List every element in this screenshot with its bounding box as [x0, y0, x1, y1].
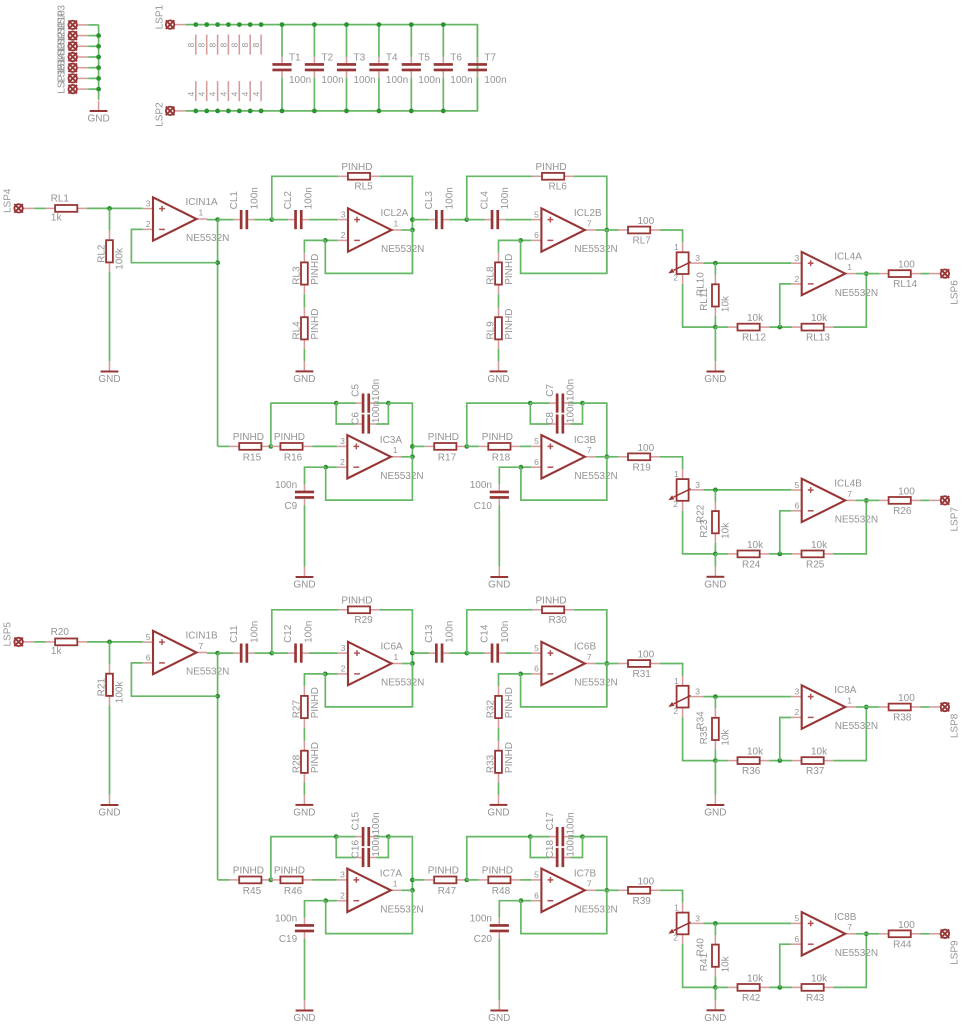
pad LSP10 — [57, 10, 89, 40]
wire — [521, 673, 531, 675]
junction — [344, 109, 349, 114]
svg-text:RL7: RL7 — [633, 236, 652, 247]
resistor R45 PINHD — [230, 866, 271, 897]
wire — [833, 500, 866, 554]
wire — [769, 553, 792, 555]
resistor R23 10k — [699, 502, 732, 543]
svg-text:8: 8 — [251, 43, 261, 48]
wire — [570, 403, 582, 424]
wire — [574, 610, 607, 707]
svg-text:4: 4 — [197, 92, 207, 97]
capacitor C20 100n — [470, 914, 509, 946]
wire — [660, 664, 683, 677]
svg-text:1: 1 — [199, 207, 204, 217]
wire — [583, 403, 607, 457]
pad LSP4 input — [2, 188, 34, 213]
wire — [683, 511, 716, 554]
svg-text:RL14: RL14 — [893, 279, 917, 290]
connector pin 4 (col 4) — [218, 81, 228, 101]
node B — [464, 878, 469, 883]
svg-text:3: 3 — [341, 643, 346, 653]
wire — [476, 25, 478, 57]
junction — [409, 109, 414, 114]
svg-text:C17: C17 — [545, 812, 556, 831]
resistor RL12 10k — [728, 313, 770, 344]
wire — [336, 402, 355, 404]
junction — [323, 898, 328, 903]
wire — [583, 837, 607, 891]
svg-text:2: 2 — [673, 933, 678, 943]
svg-text:1: 1 — [674, 469, 679, 479]
wire — [856, 933, 867, 935]
svg-text:CL4: CL4 — [480, 191, 491, 210]
junction — [386, 834, 391, 839]
svg-text:1: 1 — [674, 676, 679, 686]
wire — [336, 836, 355, 838]
svg-text:LSP1: LSP1 — [155, 4, 166, 29]
wire — [325, 664, 412, 707]
pad LSP1 — [155, 4, 186, 29]
wire — [380, 176, 413, 273]
svg-text:R37: R37 — [806, 766, 825, 777]
wire — [281, 25, 283, 57]
svg-text:GND: GND — [293, 374, 315, 385]
svg-text:R38: R38 — [893, 713, 912, 724]
svg-text:IC3A: IC3A — [380, 435, 403, 446]
connector pin 8 (col 2) — [197, 35, 207, 55]
svg-text:ICL4A: ICL4A — [834, 252, 862, 263]
ground — [704, 566, 726, 590]
op-amp ICIN1B NE5532N — [143, 631, 230, 678]
connector pin 8 (col 5) — [229, 35, 239, 55]
wire — [254, 652, 271, 654]
junction — [518, 672, 523, 677]
junction — [193, 22, 198, 27]
junction — [713, 325, 718, 330]
svg-text:10k: 10k — [747, 973, 764, 984]
resistor RL3 PINHD — [291, 253, 321, 294]
junction — [237, 22, 242, 27]
wire — [88, 56, 98, 58]
wire — [683, 717, 716, 760]
svg-text:IC8A: IC8A — [834, 685, 857, 696]
resistor R44 100 — [879, 920, 921, 951]
svg-text:4: 4 — [186, 92, 196, 97]
junction — [312, 109, 317, 114]
svg-text:3: 3 — [695, 687, 700, 697]
junction — [441, 109, 446, 114]
wire — [921, 933, 930, 935]
wire — [207, 219, 218, 221]
svg-text:2: 2 — [146, 219, 151, 229]
ground — [704, 795, 726, 819]
svg-text:C18: C18 — [545, 840, 556, 859]
wire — [346, 78, 348, 111]
svg-text:100n: 100n — [565, 401, 576, 423]
wire — [34, 641, 45, 643]
svg-text:100n: 100n — [565, 834, 576, 856]
svg-text:C9: C9 — [284, 501, 297, 512]
svg-text:GND: GND — [293, 580, 315, 591]
wire — [313, 25, 315, 57]
junction — [259, 109, 264, 114]
junction — [777, 758, 782, 763]
wire — [217, 220, 219, 447]
svg-text:LSP4: LSP4 — [2, 188, 13, 213]
resistor R46 PINHD — [271, 866, 312, 897]
connector pin 8 (col 3) — [208, 35, 218, 55]
svg-text:3: 3 — [695, 253, 700, 263]
svg-text:3: 3 — [146, 198, 151, 208]
resistor R30 PINHD — [532, 595, 574, 626]
svg-text:100n: 100n — [371, 812, 382, 834]
capacitor CL2 100n — [283, 187, 315, 229]
junction — [713, 552, 718, 557]
svg-text:100: 100 — [898, 693, 915, 704]
wire — [780, 718, 792, 761]
svg-text:RL12: RL12 — [742, 333, 766, 344]
wire — [520, 879, 531, 881]
junction — [777, 985, 782, 990]
resistor R32 PINHD — [486, 686, 516, 727]
wire — [607, 456, 619, 458]
svg-text:7: 7 — [587, 445, 592, 455]
svg-text:ICL4B: ICL4B — [834, 478, 862, 489]
svg-text:GND: GND — [487, 374, 509, 385]
wire — [521, 890, 607, 933]
svg-text:8: 8 — [229, 43, 239, 48]
svg-text:PINHD: PINHD — [341, 595, 372, 606]
wire — [312, 445, 337, 447]
svg-text:R42: R42 — [742, 993, 761, 1004]
wire — [780, 944, 792, 987]
ground — [487, 795, 509, 819]
junction — [777, 552, 782, 557]
junction — [528, 834, 533, 839]
node IC8A output — [864, 705, 869, 710]
svg-text:R31: R31 — [633, 669, 652, 680]
node IC6A output — [410, 661, 415, 666]
wire — [530, 836, 549, 838]
wire — [309, 219, 338, 221]
svg-text:RL8: RL8 — [486, 266, 497, 285]
svg-text:8: 8 — [218, 43, 228, 48]
junction — [280, 22, 285, 27]
wire — [303, 349, 305, 361]
node IC3B output — [604, 454, 609, 459]
wire — [410, 25, 412, 57]
wire — [401, 889, 412, 891]
ground — [293, 795, 315, 819]
svg-text:100n: 100n — [470, 480, 492, 491]
svg-text:NE5532N: NE5532N — [835, 948, 878, 959]
wire — [88, 67, 98, 69]
svg-text:CL2: CL2 — [283, 191, 294, 210]
svg-text:PINHD: PINHD — [536, 595, 567, 606]
resistor RL5 PINHD — [338, 162, 379, 193]
op-amp IC6B NE5532N — [531, 642, 618, 689]
ground — [98, 361, 120, 385]
svg-text:100k: 100k — [115, 247, 126, 270]
svg-text:GND: GND — [704, 579, 726, 590]
junction — [96, 33, 101, 38]
wire — [218, 445, 230, 447]
wire — [521, 664, 607, 707]
svg-text:2: 2 — [341, 230, 346, 240]
capacitor T7 100n — [468, 52, 507, 86]
wire — [467, 879, 479, 881]
wire — [272, 219, 288, 221]
svg-text:R45: R45 — [243, 886, 262, 897]
svg-text:10k: 10k — [811, 313, 828, 324]
node A — [269, 651, 274, 656]
svg-text:T2: T2 — [321, 52, 333, 63]
wire — [866, 499, 879, 501]
svg-text:RL11: RL11 — [699, 287, 710, 311]
pad LSP3 — [57, 5, 89, 30]
svg-text:5: 5 — [146, 632, 151, 642]
svg-text:100n: 100n — [371, 379, 382, 401]
capacitor CL4 100n — [480, 187, 512, 229]
resistor RL6 PINHD — [532, 162, 574, 193]
capacitor C15 100n — [351, 812, 383, 847]
wire — [34, 207, 45, 209]
wire — [498, 294, 500, 307]
wire — [499, 240, 521, 252]
wire — [303, 294, 305, 307]
ground — [488, 567, 510, 591]
wire — [442, 78, 444, 111]
svg-text:R27: R27 — [291, 700, 302, 719]
svg-text:10k: 10k — [721, 522, 732, 539]
wire — [714, 554, 716, 567]
capacitor C9 100n — [275, 480, 314, 512]
svg-text:7: 7 — [587, 879, 592, 889]
capacitor C14 100n — [480, 621, 512, 663]
wire — [498, 505, 500, 566]
wire — [595, 663, 607, 665]
svg-text:10k: 10k — [721, 295, 732, 312]
svg-text:4: 4 — [208, 92, 218, 97]
junction — [377, 109, 382, 114]
pad LSP14 — [57, 53, 89, 83]
wire — [714, 987, 716, 1000]
svg-text:100n: 100n — [418, 75, 440, 86]
svg-text:100n: 100n — [450, 75, 472, 86]
op-amp ICIN1A NE5532N — [143, 197, 230, 244]
resistor R29 PINHD — [338, 595, 379, 626]
svg-text:R48: R48 — [492, 886, 511, 897]
svg-text:100n: 100n — [275, 914, 297, 925]
junction — [96, 44, 101, 49]
wire — [683, 944, 716, 987]
svg-text:R29: R29 — [354, 615, 373, 626]
wire — [715, 760, 728, 762]
svg-text:R41: R41 — [699, 952, 710, 971]
wire — [218, 652, 234, 654]
svg-text:100n: 100n — [565, 812, 576, 834]
junction — [96, 65, 101, 70]
wire — [521, 239, 531, 241]
pad LSP8 output — [929, 703, 960, 738]
wire — [303, 783, 305, 795]
junction — [344, 22, 349, 27]
capacitor C10 100n — [470, 480, 509, 512]
svg-text:C15: C15 — [351, 812, 362, 831]
wire — [714, 490, 716, 502]
svg-text:100n: 100n — [289, 75, 311, 86]
capacitor T4 100n — [369, 52, 408, 86]
svg-text:LSP15: LSP15 — [57, 63, 68, 93]
wire — [388, 837, 412, 891]
junction — [580, 401, 585, 406]
svg-text:6: 6 — [794, 934, 799, 944]
wire — [376, 403, 388, 424]
wire — [325, 239, 337, 241]
svg-text:R36: R36 — [742, 766, 761, 777]
node RL1/RL2 — [107, 206, 112, 211]
svg-text:LSP8: LSP8 — [950, 713, 961, 738]
junction — [334, 401, 339, 406]
wire — [714, 316, 716, 327]
ground — [293, 361, 315, 385]
svg-text:PINHD: PINHD — [274, 866, 305, 877]
resistor R27 PINHD — [291, 686, 321, 727]
wire — [595, 456, 607, 458]
wire — [109, 272, 111, 361]
svg-text:2: 2 — [341, 664, 346, 674]
wire — [442, 25, 444, 57]
wire — [271, 837, 336, 880]
wire — [272, 610, 339, 653]
resistor R26 100 — [879, 486, 921, 517]
svg-text:PINHD: PINHD — [482, 432, 513, 443]
wire — [660, 457, 683, 469]
junction — [259, 22, 264, 27]
svg-text:1: 1 — [847, 695, 852, 705]
wire — [498, 349, 500, 361]
wire — [498, 728, 500, 741]
svg-text:T7: T7 — [484, 52, 496, 63]
svg-text:100n: 100n — [500, 621, 511, 643]
wire — [467, 219, 485, 221]
svg-text:GND: GND — [704, 374, 726, 385]
svg-text:NE5532N: NE5532N — [574, 471, 617, 482]
svg-text:PINHD: PINHD — [341, 162, 372, 173]
svg-text:2: 2 — [673, 706, 678, 716]
svg-text:IC6B: IC6B — [574, 642, 597, 653]
svg-text:100n: 100n — [249, 621, 260, 643]
wire — [714, 543, 716, 554]
svg-text:C7: C7 — [545, 384, 556, 397]
wire — [856, 706, 867, 708]
resistor R31 100 — [618, 650, 660, 681]
op-amp IC3A NE5532N — [337, 435, 424, 482]
svg-text:100n: 100n — [304, 187, 315, 209]
wire — [714, 327, 716, 361]
node ICIN1A output — [215, 217, 220, 222]
svg-text:10k: 10k — [721, 728, 732, 745]
svg-text:2: 2 — [673, 272, 678, 282]
pad LSP7 output — [929, 496, 960, 531]
resistor R17 PINHD — [425, 432, 466, 463]
svg-text:2: 2 — [673, 499, 678, 509]
junction — [226, 109, 231, 114]
capacitor C8 100n — [545, 401, 577, 434]
junction — [96, 87, 101, 92]
svg-text:C8: C8 — [545, 412, 556, 425]
resistor RL2 100k — [97, 231, 126, 272]
junction — [204, 109, 209, 114]
op-amp IC3B NE5532N — [531, 435, 618, 482]
op-amp IC7A NE5532N — [337, 868, 424, 915]
wire — [660, 230, 683, 242]
junction — [519, 465, 524, 470]
svg-text:IC7B: IC7B — [574, 868, 597, 879]
node B — [464, 217, 469, 222]
wire — [467, 837, 531, 880]
capacitor C11 100n — [229, 621, 260, 663]
junction — [215, 22, 220, 27]
svg-text:C6: C6 — [351, 412, 362, 425]
wire — [833, 934, 866, 988]
wire — [412, 219, 429, 221]
svg-text:1: 1 — [674, 903, 679, 913]
svg-text:R17: R17 — [438, 452, 457, 463]
svg-text:GND: GND — [98, 374, 120, 385]
capacitor T6 100n — [434, 52, 473, 86]
wire — [186, 25, 478, 111]
capacitor C18 100n — [545, 834, 577, 867]
svg-text:6: 6 — [794, 501, 799, 511]
wire — [272, 652, 288, 654]
svg-text:C13: C13 — [424, 624, 435, 643]
svg-text:R16: R16 — [284, 452, 303, 463]
capacitor T3 100n — [337, 52, 376, 86]
junction — [323, 465, 328, 470]
svg-text:NE5532N: NE5532N — [835, 288, 878, 299]
junction — [215, 109, 220, 114]
node ICL2A output — [410, 228, 415, 233]
node IC7B output — [604, 888, 609, 893]
wire — [499, 674, 521, 686]
wire — [304, 505, 306, 566]
wire — [715, 326, 728, 328]
svg-text:8: 8 — [186, 43, 196, 48]
wire — [272, 176, 339, 219]
wire — [87, 641, 143, 643]
node R20/R21 — [107, 640, 112, 645]
svg-text:100n: 100n — [249, 187, 260, 209]
resistor R39 100 — [618, 876, 660, 907]
wire — [326, 466, 337, 468]
svg-text:LSP5: LSP5 — [2, 622, 13, 647]
wire — [521, 230, 607, 273]
wire — [521, 457, 607, 500]
capacitor T1 100n — [272, 52, 311, 86]
svg-text:1: 1 — [674, 242, 679, 252]
svg-text:PINHD: PINHD — [504, 742, 515, 773]
svg-text:R26: R26 — [893, 506, 912, 517]
wire — [921, 273, 930, 275]
svg-text:RL2: RL2 — [97, 244, 108, 263]
svg-text:8: 8 — [197, 43, 207, 48]
svg-text:100: 100 — [638, 216, 655, 227]
resistor R20 1k — [46, 627, 87, 657]
wire — [833, 274, 866, 328]
svg-text:7: 7 — [587, 218, 592, 228]
svg-text:C14: C14 — [480, 624, 491, 643]
